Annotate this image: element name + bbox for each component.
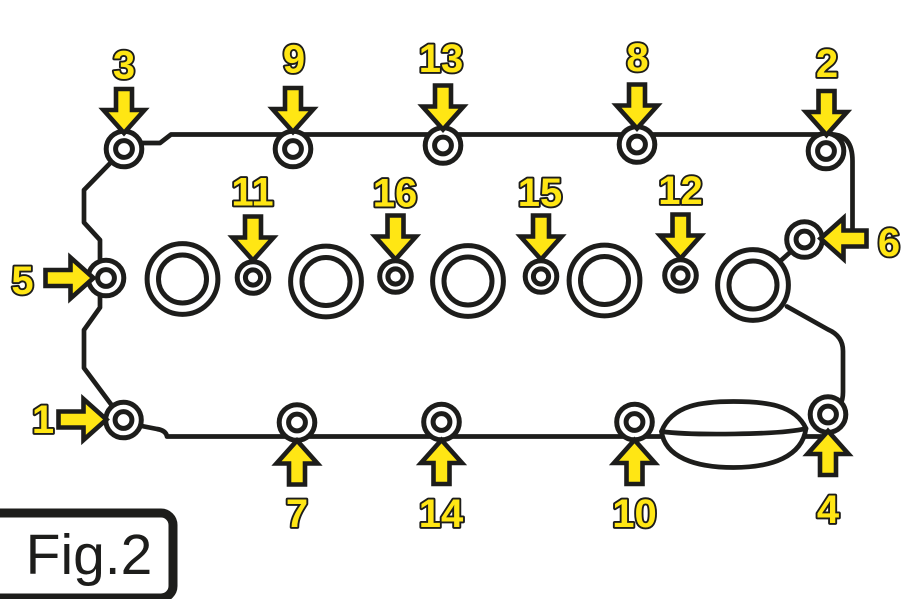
wire: cover outline left edge — [84, 151, 122, 419]
bolt hole 16 — [380, 261, 412, 293]
svg-text:16: 16 — [373, 172, 418, 216]
svg-text:2: 2 — [816, 42, 838, 86]
arrow 4 — [808, 431, 849, 475]
svg-text:10: 10 — [612, 492, 657, 536]
svg-text:12: 12 — [658, 169, 703, 213]
bolt hole 8 — [619, 127, 655, 163]
arrow 6 — [821, 218, 867, 259]
cam bore 2 — [291, 246, 362, 317]
arrow 3 — [104, 89, 145, 133]
oil filler neck rim line — [662, 429, 807, 435]
svg-text:5: 5 — [11, 259, 33, 303]
arrow 12 — [660, 215, 701, 259]
svg-text:9: 9 — [283, 38, 305, 82]
bolt hole 4 — [810, 397, 846, 433]
bolt hole 5 — [88, 260, 124, 296]
bolt hole 7 — [279, 405, 315, 441]
arrow 16 — [375, 216, 416, 260]
wire: bolt 6 to cam bore 5 — [760, 240, 804, 279]
bolt hole 13 — [425, 128, 461, 164]
bolt hole 14 — [424, 404, 460, 440]
svg-text:13: 13 — [419, 37, 464, 81]
arrow 7 — [277, 441, 318, 485]
arrow 5 — [46, 258, 94, 299]
arrow 13 — [423, 86, 464, 130]
cam bore 5 — [718, 250, 789, 321]
svg-text:15: 15 — [518, 171, 563, 215]
cam bore 1 — [147, 244, 218, 315]
arrow 14 — [421, 440, 462, 484]
bolt hole 9 — [275, 131, 311, 167]
bolt hole 2 — [808, 133, 844, 169]
svg-text:7: 7 — [286, 492, 308, 536]
arrow 11 — [233, 217, 274, 261]
bolt hole 15 — [525, 261, 557, 293]
Fig.2 box — [0, 513, 173, 598]
arrow 15 — [521, 216, 562, 260]
cam bore 3 — [433, 246, 504, 317]
wire: cover outline right edge lower — [787, 307, 843, 416]
bolt hole 12 — [665, 260, 697, 292]
svg-text:3: 3 — [113, 44, 135, 88]
arrow 2 — [806, 91, 847, 135]
svg-text:Fig.2: Fig.2 — [26, 523, 153, 587]
svg-text:4: 4 — [817, 488, 840, 532]
oil filler neck oval — [662, 402, 807, 468]
svg-text:11: 11 — [231, 171, 273, 215]
arrow 10 — [614, 440, 655, 484]
bolt hole 3 — [106, 131, 142, 167]
bolt hole 1 — [106, 402, 142, 438]
arrow 9 — [273, 88, 314, 132]
cam bore 4 — [569, 245, 640, 316]
wire: cover outline bottom edge — [124, 423, 827, 437]
svg-text:6: 6 — [878, 221, 900, 265]
wire: cover outline top edge — [124, 135, 853, 240]
svg-text:1: 1 — [32, 398, 54, 442]
arrow 8 — [617, 85, 658, 129]
svg-text:8: 8 — [626, 36, 648, 80]
arrow 1 — [59, 399, 107, 440]
svg-text:14: 14 — [419, 492, 464, 536]
bolt hole 10 — [617, 404, 653, 440]
bolt hole 11 — [237, 262, 269, 294]
bolt hole 6 — [787, 222, 823, 258]
